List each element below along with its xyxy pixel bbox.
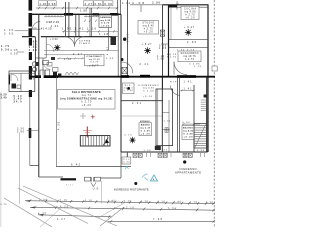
left dim tick 4 xyxy=(27,130,39,132)
right zone vertical x168 xyxy=(168,5,170,77)
red cross marker xyxy=(91,115,95,119)
svg-text:1.10: 1.10 xyxy=(85,199,93,202)
top-right wall poche xyxy=(169,5,178,8)
top right outer wall xyxy=(163,4,209,6)
svg-text:mq 4.30: mq 4.30 xyxy=(183,129,194,132)
bottom wall segment right of entrance xyxy=(101,152,128,178)
left outer wall poche segments xyxy=(29,0,33,97)
top-right wall inner line xyxy=(169,6,209,8)
interior thin vertical x171 xyxy=(170,7,172,39)
bottom dim line 1 ticks xyxy=(29,199,215,205)
entrance steps rect 2 xyxy=(94,177,100,181)
svg-text:2.90: 2.90 xyxy=(17,131,25,134)
door hatch pair 1 bottom xyxy=(133,153,142,157)
vertical wall x195.8 xyxy=(193,85,195,152)
cucina text box xyxy=(181,6,199,19)
svg-text:P.1C: P.1C xyxy=(123,159,130,161)
svg-text:+0.20: +0.20 xyxy=(184,136,194,138)
door arc right mid xyxy=(174,62,187,75)
right room inner wall line xyxy=(157,89,159,146)
svg-text:ZONA PRANZO: ZONA PRANZO xyxy=(86,55,102,58)
dim chain left arrowheads xyxy=(25,200,43,216)
svg-text:1.18: 1.18 xyxy=(64,58,72,61)
door leaf right mid xyxy=(173,62,175,75)
svg-text:h 2.70: h 2.70 xyxy=(101,23,110,25)
right zone vertical x162 xyxy=(162,5,164,89)
svg-text:1.50: 1.50 xyxy=(80,8,87,12)
svg-text:4.30: 4.30 xyxy=(58,121,61,130)
right margin dim stack 2 xyxy=(157,56,165,61)
svg-text:h 2.40: h 2.40 xyxy=(144,90,155,92)
door arc below wall D right xyxy=(122,62,133,73)
vertical wall x162.3 lower xyxy=(161,77,163,152)
left dim tick 1 xyxy=(15,30,28,32)
svg-text:1.95: 1.95 xyxy=(108,199,116,202)
svg-text:BAGNO: BAGNO xyxy=(183,126,193,129)
leader diagonal 3 xyxy=(23,186,117,226)
svg-text:1.10: 1.10 xyxy=(60,199,68,202)
svg-text:0.75: 0.75 xyxy=(1,204,8,206)
central staircase arrowhead xyxy=(105,139,109,143)
wall poche block right of B xyxy=(111,36,117,45)
wc text box xyxy=(182,122,200,139)
bottom wall dim ticks xyxy=(127,153,205,157)
svg-text:1.10: 1.10 xyxy=(190,201,198,204)
svg-text:DISIMPEGNO: DISIMPEGNO xyxy=(139,85,159,87)
door hatch box on x162 wall xyxy=(160,30,164,36)
left dim text dark block row xyxy=(1,93,8,99)
bathroom dark fixtures xyxy=(53,72,57,77)
right outer wall x208 xyxy=(207,5,209,152)
svg-text:+0,20: +0,20 xyxy=(82,105,92,107)
svg-text:h 2,70: h 2,70 xyxy=(81,102,92,104)
svg-text:1.41: 1.41 xyxy=(51,24,59,28)
bottom-left step outline xyxy=(30,166,63,178)
short vertical stub x141 xyxy=(140,5,142,12)
top dimension text row 1 xyxy=(39,1,113,6)
svg-text:+0.20: +0.20 xyxy=(143,96,153,98)
left dim text block 4 xyxy=(17,127,25,133)
svg-text:+ 6.27: + 6.27 xyxy=(184,26,195,29)
interior wall horizontal E xyxy=(121,100,163,102)
bottom wall right zone xyxy=(121,151,208,153)
left dim text stack mid xyxy=(29,41,38,52)
annex room outline left xyxy=(9,71,35,92)
svg-text:1.10: 1.10 xyxy=(141,200,149,203)
top dimension end cross xyxy=(174,1,180,10)
svg-text:INGRESSO: INGRESSO xyxy=(180,167,197,171)
filled dot marker disimpegno xyxy=(127,87,130,90)
short lintel y129.3 xyxy=(162,128,170,130)
dimension line y31 xyxy=(62,30,118,32)
left leader vertical xyxy=(18,133,20,204)
svg-text:0.90: 0.90 xyxy=(157,59,165,61)
left dim text block 1 xyxy=(4,29,14,35)
dim text row y54 xyxy=(64,53,83,61)
right staircase diagonal xyxy=(195,125,206,148)
svg-text:h 2.40: h 2.40 xyxy=(141,130,151,133)
bottom dim line 1 xyxy=(25,201,214,204)
bathroom fixtures rects xyxy=(40,61,49,77)
svg-text:0.56: 0.56 xyxy=(1,48,10,51)
dim line y58.3 xyxy=(57,57,84,59)
svg-text:SALA RISTORANTE: SALA RISTORANTE xyxy=(72,90,101,94)
svg-text:34.0: 34.0 xyxy=(14,100,23,103)
svg-text:h 2.40: h 2.40 xyxy=(184,132,194,135)
annex fixtures xyxy=(12,84,17,89)
small cyan tick xyxy=(125,166,128,169)
svg-text:h 2.70: h 2.70 xyxy=(186,14,196,16)
annex door arc xyxy=(11,74,18,81)
svg-text:+0.20: +0.20 xyxy=(141,134,151,136)
svg-text:+ 6.27: + 6.27 xyxy=(142,43,153,46)
svg-text:1.10: 1.10 xyxy=(194,66,202,68)
ingresso ristorante diamond xyxy=(134,182,137,185)
svg-text:mq 19.76: mq 19.76 xyxy=(184,56,197,58)
svg-text:+0.20: +0.20 xyxy=(144,32,154,34)
bottom dim line 3 ticks xyxy=(42,213,110,218)
scan edge smudge left xyxy=(0,92,1,227)
svg-text:1.10: 1.10 xyxy=(158,200,166,203)
entrance door marks xyxy=(91,177,96,186)
leader diagonal 6 xyxy=(40,207,62,227)
plant star symbol lower xyxy=(129,137,135,143)
sala ristorante text box xyxy=(58,90,116,110)
bathroom partition horizontal xyxy=(35,57,46,59)
top dimension line left xyxy=(36,7,118,9)
anti bagno label box xyxy=(139,120,152,135)
short lintel y112.7 xyxy=(162,112,169,114)
svg-text:2.06: 2.06 xyxy=(152,0,160,4)
bottom dim line 2 ticks xyxy=(34,206,215,212)
right staircase treads xyxy=(194,126,207,146)
right divider horizontal y47.5 xyxy=(169,47,209,49)
top dimension ticks left xyxy=(38,7,118,10)
dim line 1.41 corridor xyxy=(180,89,194,91)
svg-text:0.90: 0.90 xyxy=(104,2,112,6)
svg-text:mq 9.00: mq 9.00 xyxy=(100,20,111,22)
bottom dim line 4 right xyxy=(108,220,215,222)
interior wall pair above top wall xyxy=(118,0,121,14)
dimension ticks row 2 xyxy=(84,20,97,22)
left dim text block 2 xyxy=(1,45,18,55)
room interior cross mark xyxy=(165,127,169,132)
central staircase treads xyxy=(83,136,107,146)
svg-text:0.81: 0.81 xyxy=(95,2,103,6)
svg-text:h 2.70: h 2.70 xyxy=(90,62,99,64)
interior vertical wall pair a xyxy=(66,2,69,37)
svg-text:1.41: 1.41 xyxy=(164,121,172,123)
svg-text:2.10: 2.10 xyxy=(126,206,135,209)
bathroom partition vertical 1 xyxy=(45,37,47,58)
svg-text:SOPRA: SOPRA xyxy=(79,40,91,43)
bottom dim line 2 xyxy=(30,207,214,210)
window band 2 ticks xyxy=(86,14,107,16)
svg-text:0.98: 0.98 xyxy=(106,58,114,60)
right divider horizontal y39.5 xyxy=(169,39,209,41)
vertical wall center x121 xyxy=(120,14,122,152)
svg-text:4.25: 4.25 xyxy=(29,49,38,52)
svg-text:mq 32.90: mq 32.90 xyxy=(89,59,101,61)
bathroom door arc xyxy=(46,44,54,52)
bottom thick door sill bar xyxy=(61,178,77,180)
studio text box xyxy=(138,21,159,35)
plant star symbol studio xyxy=(144,47,151,54)
svg-text:RIP.: RIP. xyxy=(170,81,178,83)
bottom dim line 3 left xyxy=(38,215,112,217)
door hatch pair 2 bottom xyxy=(158,153,167,157)
svg-text:mq 3.30: mq 3.30 xyxy=(140,128,151,130)
bottom dim line 4 ticks xyxy=(110,220,215,223)
dim ticks above wall D xyxy=(65,72,79,75)
double door arcs on wall B xyxy=(65,37,85,47)
svg-text:0.40: 0.40 xyxy=(123,162,130,164)
filled dot marker mid xyxy=(121,58,124,61)
bottom dim line 1 labels xyxy=(39,198,214,204)
small black square fixture xyxy=(204,95,207,98)
red section line xyxy=(86,127,88,138)
right staircase outline xyxy=(194,124,207,149)
svg-text:APPARTAMENTE: APPARTAMENTE xyxy=(175,170,201,174)
svg-text:4.27: 4.27 xyxy=(57,218,66,221)
svg-text:h 2.40: h 2.40 xyxy=(124,90,134,92)
door arc top-left room xyxy=(33,21,41,29)
top wall poche segment 1 xyxy=(64,13,73,16)
leader diagonal 5 xyxy=(98,202,126,218)
door hatch box wall D xyxy=(122,67,127,74)
inner vertical line x56 xyxy=(55,77,57,167)
vertical wall x127.5 xyxy=(127,0,129,77)
svg-text:STUDIO: STUDIO xyxy=(142,23,154,25)
main mid wall D xyxy=(30,76,215,78)
svg-text:BAGNO: BAGNO xyxy=(141,124,150,127)
svg-text:U.S.: U.S. xyxy=(93,186,100,190)
grey cross below sala box xyxy=(80,113,86,119)
svg-text:h 2.70: h 2.70 xyxy=(144,29,154,31)
central staircase outline xyxy=(80,136,110,146)
small text left of soggiorno box xyxy=(167,54,177,59)
bathroom door arc 2 xyxy=(43,62,51,70)
interior wall horizontal B xyxy=(22,36,112,38)
door arc right below D xyxy=(171,86,181,96)
left dim tick 2 xyxy=(17,51,24,53)
top dimension text row 2 xyxy=(46,8,87,27)
leader vertical from entrance xyxy=(101,181,103,204)
svg-text:CAMERA: CAMERA xyxy=(100,16,111,19)
camera text box top xyxy=(99,15,112,28)
dimension ticks y31 xyxy=(63,30,115,32)
disimpegno text xyxy=(139,85,159,92)
small label box on property line xyxy=(212,66,217,71)
top wall poche segment 2 xyxy=(110,13,119,16)
small text below double doors xyxy=(79,40,91,46)
interior wall horizontal B thin part xyxy=(112,36,118,38)
short vertical x206.7 upper xyxy=(206,77,208,152)
svg-text:1.18: 1.18 xyxy=(99,32,109,36)
svg-text:1.95: 1.95 xyxy=(174,200,182,203)
cyan triangle marker A xyxy=(150,175,157,181)
central staircase arrow xyxy=(103,138,109,146)
interior vertical wall left inner xyxy=(34,37,36,77)
room interior dark blob bottom xyxy=(155,146,161,150)
svg-text:+ 0.02: + 0.02 xyxy=(50,39,59,41)
dim line above wc box xyxy=(182,123,200,125)
interior vertical line at 108.6 xyxy=(108,26,110,50)
bottom dim line 2 labels xyxy=(60,205,177,210)
svg-text:SOGGIORNO: SOGGIORNO xyxy=(181,53,199,55)
top outer wall xyxy=(30,13,121,15)
window band inner line xyxy=(44,16,64,18)
left wall big room xyxy=(38,14,40,177)
svg-text:INGRESSO RISTORANTE: INGRESSO RISTORANTE xyxy=(114,188,149,192)
entrance steps rect 1 xyxy=(85,177,91,181)
svg-text:0.90: 0.90 xyxy=(183,122,191,124)
interior vertical wall pair b xyxy=(76,14,79,36)
svg-text:1.11: 1.11 xyxy=(122,1,130,5)
svg-text:h 2.70: h 2.70 xyxy=(167,57,177,59)
upper stair treads right edge xyxy=(201,100,207,111)
left outer wall thin continuation xyxy=(29,97,31,166)
bathroom partition vertical 2 xyxy=(42,58,44,77)
svg-text:+0.20: +0.20 xyxy=(101,25,110,27)
leader diagonal 1 xyxy=(4,198,52,227)
small note box bottom center xyxy=(122,157,131,164)
svg-text:0.98: 0.98 xyxy=(197,150,205,152)
svg-text:CUCINA: CUCINA xyxy=(184,7,196,10)
left dim text block 3 xyxy=(14,95,23,104)
door hatch pair 3 bottom xyxy=(183,153,192,157)
zona pranzo text box xyxy=(85,54,105,66)
interior vertical wall pair c xyxy=(90,8,92,37)
svg-text:0.55: 0.55 xyxy=(11,52,19,55)
interior line horizontal C xyxy=(44,50,118,52)
svg-text:mq 9.06: mq 9.06 xyxy=(185,11,197,13)
vertical wall x118 upper xyxy=(117,14,119,76)
interior line horizontal short y54.8 xyxy=(44,54,85,56)
bottom inner wall center xyxy=(56,166,131,168)
svg-text:5.08: 5.08 xyxy=(168,207,177,210)
vertical line x169 lower xyxy=(168,100,170,152)
svg-text:+0.20: +0.20 xyxy=(186,17,196,19)
soggiorno text box xyxy=(178,51,201,62)
svg-text:1.10: 1.10 xyxy=(206,201,214,204)
svg-text:3.40: 3.40 xyxy=(1,97,8,100)
ingresso appartamente label xyxy=(175,167,201,174)
plant star symbol bathroom xyxy=(54,44,60,51)
right room rectangle xyxy=(156,89,173,146)
faint room divider y116 xyxy=(121,115,162,117)
svg-text:1.05 1.41 1.16: 1.05 1.41 1.16 xyxy=(62,26,97,30)
svg-text:0.98: 0.98 xyxy=(48,2,55,6)
ingresso appartamente diamond xyxy=(183,160,186,163)
svg-text:1.05: 1.05 xyxy=(159,48,167,50)
short link line y44 xyxy=(161,43,169,45)
plant star symbol cucina xyxy=(185,29,192,36)
filled dot marker top xyxy=(123,38,126,41)
property boundary dashed line right xyxy=(213,0,215,227)
leader diagonal 2 xyxy=(18,188,88,224)
right zone wall pair x177.6 xyxy=(178,77,180,152)
window band ticks xyxy=(46,14,61,16)
right margin dim stack 1 xyxy=(159,45,167,50)
dimension text row at y28.5 xyxy=(31,26,109,36)
rip text box xyxy=(123,83,135,94)
top dimension line right xyxy=(130,4,177,6)
svg-text:2.27: 2.27 xyxy=(85,2,93,6)
leader diagonal 4 cross xyxy=(100,207,124,226)
svg-text:mq 9.40: mq 9.40 xyxy=(143,26,155,28)
svg-text:h 2.70: h 2.70 xyxy=(185,59,195,61)
svg-text:+0.20: +0.20 xyxy=(87,66,96,68)
left wall lower poche segments xyxy=(29,128,32,138)
svg-text:0.10: 0.10 xyxy=(125,134,133,136)
window band 2 inner line xyxy=(84,16,108,18)
annex door arc right xyxy=(27,73,34,80)
svg-text:1.05 1.41 4.25: 1.05 1.41 4.25 xyxy=(31,26,53,30)
svg-text:1.10: 1.10 xyxy=(39,2,46,6)
annex poche left edge xyxy=(9,75,10,85)
cyan squiggle symbol xyxy=(142,174,148,180)
svg-text:(mq SOMMINISTRAZIONE mq 34,35): (mq SOMMINISTRAZIONE mq 34,35) xyxy=(60,97,112,100)
wall D poche block xyxy=(140,75,150,78)
red section line flags xyxy=(83,131,92,133)
svg-text:mq 4.30: mq 4.30 xyxy=(143,88,155,90)
